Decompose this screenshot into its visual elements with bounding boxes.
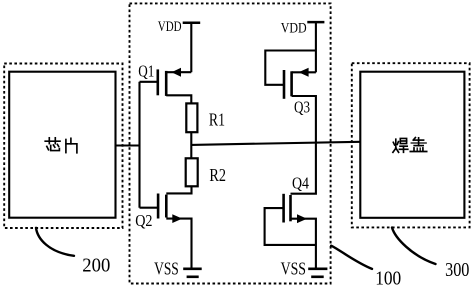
svg-text:Q1: Q1 xyxy=(138,62,154,81)
svg-text:100: 100 xyxy=(375,269,401,288)
svg-text:Q4: Q4 xyxy=(292,174,309,193)
svg-text:Q3: Q3 xyxy=(294,97,310,116)
svg-text:VSS: VSS xyxy=(154,259,179,279)
svg-text:Q2: Q2 xyxy=(135,211,152,230)
svg-text:VDD: VDD xyxy=(281,20,307,36)
svg-text:VSS: VSS xyxy=(281,259,306,279)
svg-text:R2: R2 xyxy=(209,165,226,185)
svg-text:300: 300 xyxy=(445,260,469,281)
svg-text:VDD: VDD xyxy=(158,19,182,35)
svg-text:200: 200 xyxy=(82,255,110,276)
svg-text:R1: R1 xyxy=(209,109,225,129)
